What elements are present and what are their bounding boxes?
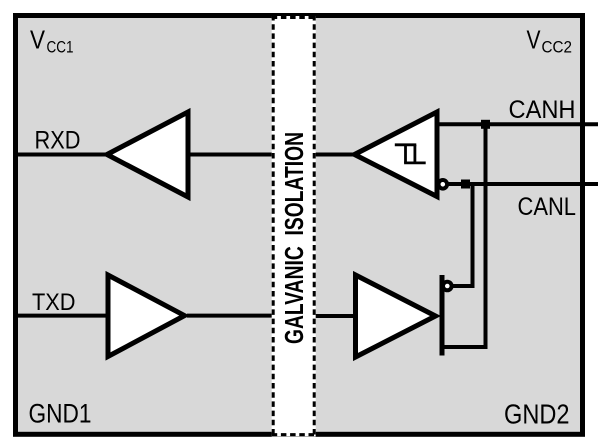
svg-text:V: V (527, 25, 542, 55)
svg-text:CANL: CANL (518, 193, 577, 221)
svg-text:CC2: CC2 (542, 39, 573, 57)
svg-text:GALVANIC ISOLATION: GALVANIC ISOLATION (279, 132, 309, 344)
svg-text:TXD: TXD (32, 289, 76, 316)
svg-text:RXD: RXD (35, 127, 81, 155)
svg-text:V: V (30, 25, 46, 55)
svg-text:CC1: CC1 (47, 39, 74, 57)
svg-text:GND1: GND1 (29, 399, 92, 429)
svg-text:GND2: GND2 (504, 399, 570, 430)
svg-text:CANH: CANH (509, 96, 576, 124)
